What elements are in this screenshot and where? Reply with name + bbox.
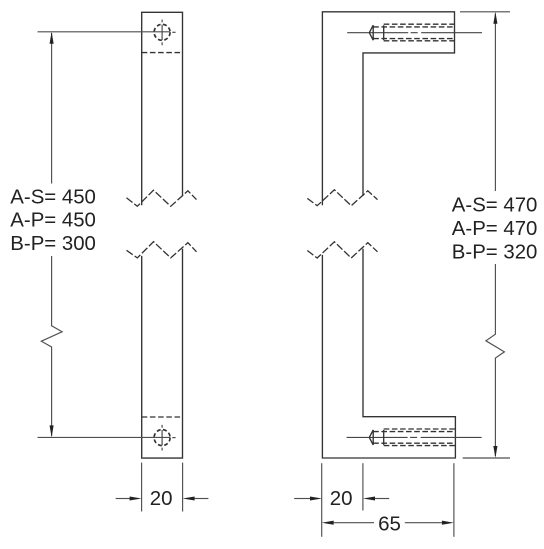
bottom screw hole drill cone: [369, 430, 373, 445]
side width arrowhead right: [363, 496, 375, 500]
svg-text:20: 20: [330, 487, 353, 510]
right dimension arrow up: [493, 12, 497, 24]
top screw hole minor diameter hidden lines: [373, 27, 454, 39]
top hole horizontal centerline tail: [172, 31, 175, 33]
top screw hole centerline: [347, 32, 482, 34]
top screw hole major diameter hidden lines: [384, 24, 455, 41]
right dimension line lower part with jog: [486, 264, 505, 456]
bottom screw hole minor diameter hidden lines: [373, 432, 455, 444]
svg-text:B-P= 320: B-P= 320: [452, 241, 538, 263]
hidden line bottom plate edge: [142, 416, 183, 418]
front width extension line right: [182, 463, 184, 512]
bottom screw hole centerline: [347, 436, 482, 438]
front width dim arrow line left: [116, 498, 130, 500]
depth arrowhead right: [442, 521, 454, 525]
front width dim arrow line right: [194, 498, 208, 500]
bar outline lower segment: [142, 249, 183, 458]
top screw hole cone base line: [372, 25, 374, 40]
svg-text:A-P= 450: A-P= 450: [10, 210, 96, 232]
side outline upper segment: [322, 12, 454, 206]
side bottom extension line middle: [362, 463, 364, 510]
right dimension extension line bottom: [463, 457, 510, 459]
svg-text:B-P= 300: B-P= 300: [10, 233, 96, 255]
svg-text:65: 65: [378, 513, 401, 536]
side bottom extension line far right: [453, 463, 455, 537]
side width dim arrow line right: [375, 498, 389, 500]
bottom hole horizontal centerline tail: [172, 437, 175, 439]
side outline lower segment: [322, 249, 455, 458]
svg-text:A-S= 450: A-S= 450: [10, 186, 96, 208]
left dimension extension line bottom: [38, 436, 171, 438]
break line lower (side): [307, 242, 377, 258]
svg-text:A-P= 470: A-P= 470: [452, 218, 538, 240]
svg-text:A-S= 470: A-S= 470: [452, 195, 538, 217]
bottom screw hole thread start line: [383, 430, 385, 445]
bottom hole circle: [154, 430, 170, 446]
left dimension arrow down: [50, 425, 54, 437]
right dimension arrow down: [493, 446, 497, 458]
bottom hole vertical centerline: [161, 425, 163, 451]
side width dim arrow line left: [294, 498, 310, 500]
right dimension extension line top: [460, 11, 510, 13]
front width arrowhead left: [130, 496, 142, 500]
bottom screw hole cone base line: [372, 430, 374, 445]
front width extension line left: [141, 463, 143, 512]
bottom screw hole major diameter hidden lines: [384, 429, 456, 446]
left dimension line lower part with jog: [41, 256, 62, 436]
svg-text:20: 20: [150, 487, 173, 510]
break line upper (side): [307, 190, 377, 206]
left dimension arrow up: [50, 32, 54, 44]
side width arrowhead left: [310, 496, 322, 500]
left dimension line upper part: [51, 33, 53, 184]
top hole vertical centerline: [161, 20, 163, 46]
side bottom extension line far left: [321, 463, 323, 537]
bar outline upper segment: [142, 12, 183, 205]
depth dim line left segment: [334, 522, 374, 524]
depth dim line right segment: [405, 522, 442, 524]
depth arrowhead left: [322, 521, 334, 525]
hidden line top plate edge: [142, 52, 183, 54]
front width arrowhead right: [183, 496, 195, 500]
top hole circle: [154, 24, 170, 40]
top screw hole thread start line: [383, 25, 385, 40]
left dimension extension line top: [38, 31, 171, 33]
right dimension line upper part: [494, 14, 496, 192]
top screw hole drill cone: [369, 25, 373, 40]
break line lower (front): [127, 242, 197, 258]
break line upper (front): [127, 190, 197, 206]
